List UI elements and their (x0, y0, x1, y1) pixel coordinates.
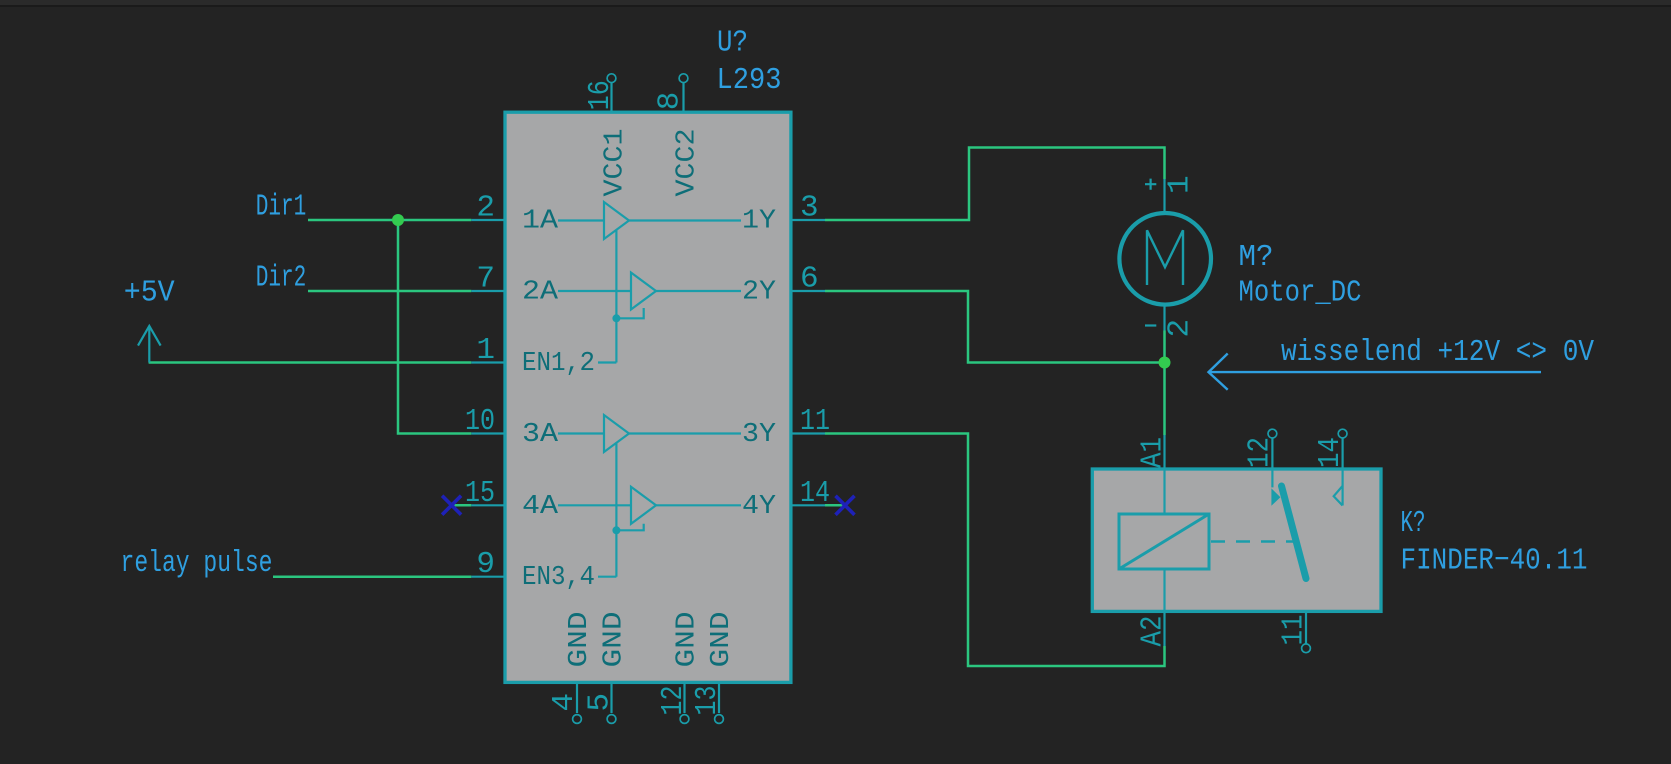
svg-text:1: 1 (476, 333, 495, 368)
svg-text:4: 4 (580, 563, 596, 593)
svg-text:2Y: 2Y (742, 278, 776, 308)
svg-text:4: 4 (547, 693, 582, 712)
svg-text:GND: GND (565, 612, 595, 668)
svg-text:5: 5 (582, 693, 617, 712)
svg-text:6: 6 (800, 262, 819, 297)
svg-text:VCC1: VCC1 (601, 129, 631, 197)
svg-text:GND: GND (707, 612, 737, 668)
svg-text:GND: GND (673, 612, 703, 668)
svg-text:3Y: 3Y (742, 420, 776, 450)
svg-text:Dir1: Dir1 (256, 190, 306, 225)
svg-text:3A: 3A (522, 420, 559, 450)
svg-text:8: 8 (653, 92, 688, 111)
svg-text:FINDER−40.11: FINDER−40.11 (1401, 544, 1588, 579)
svg-text:2: 2 (580, 349, 596, 379)
svg-text:EN3,: EN3, (522, 563, 580, 593)
svg-text:4A: 4A (522, 492, 559, 522)
svg-text:12: 12 (656, 686, 691, 716)
svg-text:GND: GND (600, 612, 630, 668)
svg-text:K?: K? (1401, 506, 1426, 541)
svg-text:1Y: 1Y (742, 207, 776, 237)
svg-text:1: 1 (1163, 175, 1198, 194)
svg-text:9: 9 (476, 547, 495, 582)
svg-text:EN1,: EN1, (522, 349, 580, 379)
svg-text:13: 13 (690, 686, 725, 716)
svg-text:L293: L293 (717, 63, 782, 98)
svg-text:wisselend +12V <> 0V: wisselend +12V <> 0V (1281, 335, 1594, 370)
svg-text:2: 2 (1163, 319, 1198, 338)
svg-text:10: 10 (465, 404, 495, 439)
svg-text:1A: 1A (522, 207, 559, 237)
svg-text:2: 2 (476, 191, 495, 226)
svg-text:2A: 2A (522, 278, 559, 308)
svg-text:+5V: +5V (124, 275, 175, 310)
svg-text:14: 14 (800, 476, 830, 511)
svg-text:4Y: 4Y (742, 492, 776, 522)
svg-text:U?: U? (717, 26, 748, 61)
svg-text:Dir2: Dir2 (256, 260, 306, 295)
svg-text:16: 16 (583, 80, 618, 110)
svg-text:11: 11 (800, 404, 830, 439)
svg-text:Motor_DC: Motor_DC (1239, 276, 1362, 311)
svg-text:VCC2: VCC2 (673, 129, 703, 197)
svg-text:7: 7 (476, 262, 495, 297)
svg-text:3: 3 (800, 191, 819, 226)
svg-text:15: 15 (465, 476, 495, 511)
svg-text:M?: M? (1239, 240, 1274, 275)
svg-text:relay pulse: relay pulse (121, 546, 273, 581)
